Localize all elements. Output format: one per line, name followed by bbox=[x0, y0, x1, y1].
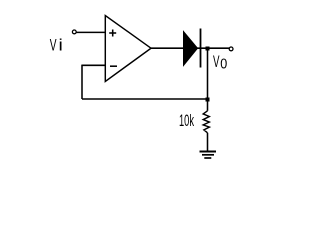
node Vo output terminal bbox=[229, 47, 233, 51]
label Vi bbox=[50, 37, 63, 55]
svg-text:10k: 10k bbox=[179, 112, 194, 130]
svg-text:V: V bbox=[50, 37, 57, 55]
wire feedback bottom horizontal bbox=[82, 98, 208, 100]
wire Vo node down to resistor bbox=[207, 48, 209, 111]
node Vi input terminal bbox=[72, 30, 76, 34]
op-amp plus sign bbox=[109, 30, 116, 37]
resistor R1 zigzag bbox=[203, 111, 209, 133]
node junction at Vo bbox=[206, 47, 210, 51]
wire resistor to ground bbox=[207, 133, 209, 151]
wire input to op-amp noninverting bbox=[76, 31, 105, 33]
diode D1 cathode bar bbox=[200, 29, 202, 68]
node junction bottom bbox=[206, 98, 210, 102]
wire inverting input bbox=[82, 64, 105, 66]
wire feedback left vertical bbox=[81, 65, 83, 99]
op-amp minus sign bbox=[110, 65, 117, 67]
svg-text:i: i bbox=[59, 37, 63, 55]
wire diode to output terminal bbox=[201, 47, 231, 49]
ground bbox=[200, 152, 217, 159]
wire op-amp output to diode bbox=[151, 47, 201, 49]
svg-text:V: V bbox=[213, 53, 220, 71]
svg-text:0: 0 bbox=[220, 56, 227, 72]
diode D1 anode triangle bbox=[184, 32, 198, 66]
label Vo bbox=[213, 53, 227, 72]
op-amp U1 bbox=[105, 16, 151, 82]
